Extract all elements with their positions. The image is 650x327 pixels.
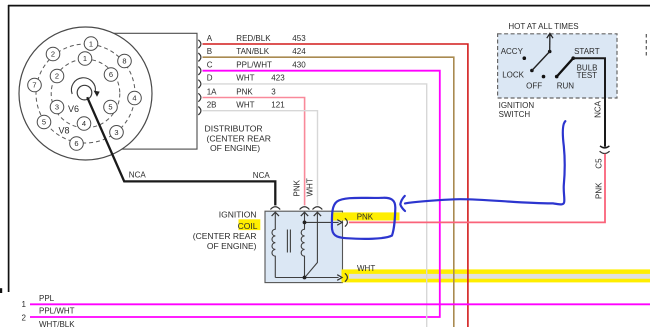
svg-text:B: B: [207, 47, 212, 56]
blue pen arrowhead: [400, 196, 405, 211]
ignition coil label: [193, 209, 258, 251]
svg-text:2: 2: [51, 50, 55, 59]
blue pen arrow line to C5: [405, 121, 565, 204]
svg-text:(CENTER REAR: (CENTER REAR: [193, 231, 257, 241]
pin D terminal: [198, 80, 201, 88]
svg-text:SWITCH: SWITCH: [499, 110, 531, 119]
distributor cap circle: [19, 27, 152, 160]
coil output connector WHT: [345, 273, 348, 281]
svg-text:4: 4: [82, 119, 86, 128]
cap terminal V8-1: [84, 37, 98, 51]
pin A terminal: [198, 40, 201, 48]
svg-text:5: 5: [42, 118, 46, 127]
svg-text:D: D: [207, 74, 213, 83]
wire PNK from C5 to coil: [349, 154, 605, 223]
svg-text:2B: 2B: [207, 101, 217, 110]
blue pen circle around PNK: [332, 198, 395, 239]
cap terminal V6-6: [104, 68, 118, 82]
ignition switch box: [498, 34, 617, 98]
coil secondary winding: [301, 212, 304, 278]
PPL row label: [22, 294, 55, 309]
pin 1A label PNK 3: [207, 87, 277, 96]
coil entry connector PNK: [300, 207, 310, 210]
pin D label WHT 423: [207, 74, 285, 83]
pin 1A terminal: [198, 93, 201, 101]
coil core: [286, 230, 288, 253]
svg-text:WHT: WHT: [236, 101, 254, 110]
wire PNK 3: [203, 98, 305, 206]
rotor: [77, 85, 92, 100]
svg-text:1: 1: [89, 39, 93, 48]
svg-text:NCA: NCA: [129, 171, 147, 180]
svg-text:430: 430: [292, 61, 306, 70]
svg-text:453: 453: [292, 34, 306, 43]
svg-text:IGNITION: IGNITION: [499, 101, 535, 110]
highlighter yellow COIL patch: [239, 219, 261, 230]
pin C label PPL/WHT 430: [207, 61, 306, 70]
page border top: [8, 5, 650, 7]
cap terminal V8-3: [110, 126, 124, 140]
switch contact LOCK: [530, 69, 534, 73]
coil primary winding: [272, 212, 275, 278]
distributor connector box: [70, 33, 197, 149]
wire NCA from switch: [573, 58, 605, 147]
coil entry connector WHT: [313, 207, 323, 210]
wire TAN/BLK 424: [203, 57, 454, 327]
svg-text:PPL/WHT: PPL/WHT: [236, 61, 272, 70]
pin 2B terminal: [198, 107, 201, 115]
dashed connector edge top-right: [645, 34, 647, 56]
wire PPL: [30, 303, 650, 305]
svg-text:3: 3: [271, 87, 276, 96]
cut wire stub bottom-left: [0, 288, 2, 293]
svg-text:WHT: WHT: [306, 178, 315, 196]
svg-text:(CENTER REAR: (CENTER REAR: [207, 133, 271, 143]
switch contact RUN: [555, 75, 559, 79]
svg-text:OFF: OFF: [526, 81, 542, 90]
highlighter yellow WHT bar: [342, 269, 650, 282]
svg-text:COIL: COIL: [238, 221, 258, 231]
switch contact bar RUN-START: [557, 58, 574, 76]
cap terminal V8-7: [28, 78, 42, 92]
coil internal wire WHT input: [305, 212, 318, 277]
svg-text:A: A: [207, 34, 213, 43]
svg-text:LOCK: LOCK: [502, 70, 524, 79]
svg-text:V8: V8: [59, 126, 70, 136]
svg-text:PNK: PNK: [595, 182, 604, 199]
svg-text:HOT AT ALL TIMES: HOT AT ALL TIMES: [508, 22, 578, 31]
coil internal wire to PNK output: [305, 221, 339, 223]
svg-text:6: 6: [109, 70, 113, 79]
svg-text:PPL: PPL: [39, 294, 55, 303]
V8 dashed ring: [36, 44, 135, 143]
PPL/WHT row label: [22, 306, 75, 322]
cap terminal V6-4: [77, 117, 91, 131]
wire WHT 423: [203, 84, 427, 327]
svg-text:DISTRIBUTOR: DISTRIBUTOR: [205, 124, 263, 134]
cap terminal V6-5: [104, 100, 118, 114]
svg-text:424: 424: [292, 47, 306, 56]
connector C5: [600, 151, 610, 153]
cap terminal V8-5: [37, 115, 51, 129]
svg-text:PNK: PNK: [357, 213, 374, 222]
svg-text:8: 8: [122, 57, 126, 66]
pin C terminal: [198, 67, 201, 75]
cap terminal V8-2: [46, 47, 60, 61]
svg-text:OF ENGINE): OF ENGINE): [210, 143, 260, 153]
svg-text:PPL/WHT: PPL/WHT: [39, 306, 75, 315]
cap terminal V8-8: [118, 54, 132, 68]
switch contact START: [571, 56, 575, 60]
pin B terminal: [198, 53, 201, 61]
wire PPL/WHT 430: [30, 71, 440, 317]
svg-text:WHT: WHT: [236, 74, 254, 83]
cap terminal V8-6: [70, 137, 84, 151]
svg-text:1: 1: [83, 54, 87, 63]
svg-text:6: 6: [74, 139, 78, 148]
cap terminal V6-2: [50, 69, 64, 83]
svg-text:WHT/BLK: WHT/BLK: [39, 320, 75, 327]
svg-text:1: 1: [22, 300, 27, 309]
distributor label: [205, 124, 271, 153]
svg-text:423: 423: [271, 74, 285, 83]
svg-text:C5: C5: [595, 158, 604, 169]
cap terminal V8-4: [128, 91, 142, 105]
switch lever: [532, 52, 550, 71]
svg-text:1A: 1A: [207, 87, 217, 96]
svg-text:WHT: WHT: [357, 264, 375, 273]
svg-text:TEST: TEST: [577, 71, 598, 80]
svg-text:IGNITION: IGNITION: [219, 209, 257, 219]
V6 dashed ring: [51, 59, 120, 128]
rotation arrow: [71, 78, 95, 94]
svg-text:V6: V6: [68, 104, 79, 114]
svg-text:OF ENGINE): OF ENGINE): [207, 241, 257, 251]
svg-text:NCA: NCA: [253, 171, 271, 180]
switch contact OFF: [542, 75, 546, 79]
svg-text:121: 121: [271, 101, 285, 110]
wire RED/BLK 453: [203, 44, 468, 327]
cap terminal V6-3: [50, 100, 64, 114]
cap terminal V6-1: [78, 52, 92, 66]
wire WHT coil output: [349, 274, 650, 279]
coil internal bottom wire to WHT output: [275, 277, 338, 279]
svg-text:START: START: [574, 47, 600, 56]
highlighter yellow PNK patch: [332, 212, 400, 220]
ignition coil box: [265, 211, 343, 282]
svg-text:7: 7: [32, 81, 36, 90]
wire NCA pointer from rotor to coil: [87, 97, 275, 205]
svg-text:4: 4: [132, 94, 136, 103]
svg-text:TAN/BLK: TAN/BLK: [236, 47, 269, 56]
svg-text:3: 3: [114, 128, 118, 137]
pin B label TAN/BLK 424: [207, 47, 306, 56]
wire WHT 121: [203, 111, 318, 206]
switch lever pivot: [548, 50, 552, 54]
svg-text:RED/BLK: RED/BLK: [236, 34, 271, 43]
svg-text:RUN: RUN: [557, 81, 575, 90]
svg-text:ACCY: ACCY: [501, 47, 524, 56]
svg-text:C: C: [207, 61, 213, 70]
coil output connector PNK: [345, 218, 348, 226]
svg-text:5: 5: [108, 103, 112, 112]
switch contact ACCY: [523, 56, 527, 60]
svg-text:3: 3: [55, 103, 59, 112]
svg-text:PNK: PNK: [236, 87, 253, 96]
svg-text:2: 2: [22, 313, 27, 322]
svg-text:2: 2: [55, 72, 59, 81]
coil junction node bottom: [303, 276, 307, 280]
pin A label RED/BLK 453: [207, 34, 306, 43]
pin 2B label WHT 121: [207, 101, 285, 110]
svg-text:NCA: NCA: [593, 100, 602, 118]
svg-text:PNK: PNK: [293, 179, 302, 196]
coil entry connector NCA: [270, 207, 280, 210]
coil junction node top: [303, 221, 307, 225]
page border left: [8, 5, 10, 292]
